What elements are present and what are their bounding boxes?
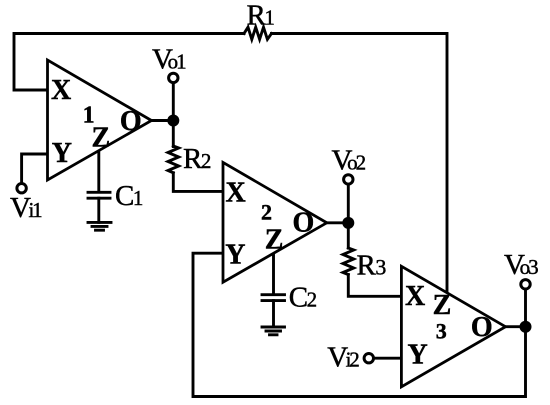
svg-text:Z: Z	[433, 290, 452, 321]
svg-text:O: O	[120, 106, 142, 137]
svg-text:Y: Y	[52, 138, 72, 169]
svg-text:2: 2	[261, 199, 272, 224]
svg-text:X: X	[51, 75, 71, 106]
svg-text:R3: R3	[357, 249, 387, 281]
svg-text:3: 3	[436, 319, 447, 344]
svg-text:X: X	[226, 178, 246, 209]
svg-text:Y: Y	[225, 240, 245, 271]
svg-text:O: O	[471, 312, 493, 343]
svg-text:Z: Z	[265, 225, 284, 256]
svg-text:R1: R1	[247, 0, 275, 31]
svg-text:O: O	[293, 207, 315, 238]
svg-text:1: 1	[83, 102, 95, 128]
svg-text:Y: Y	[408, 340, 428, 371]
svg-text:X: X	[405, 281, 425, 312]
